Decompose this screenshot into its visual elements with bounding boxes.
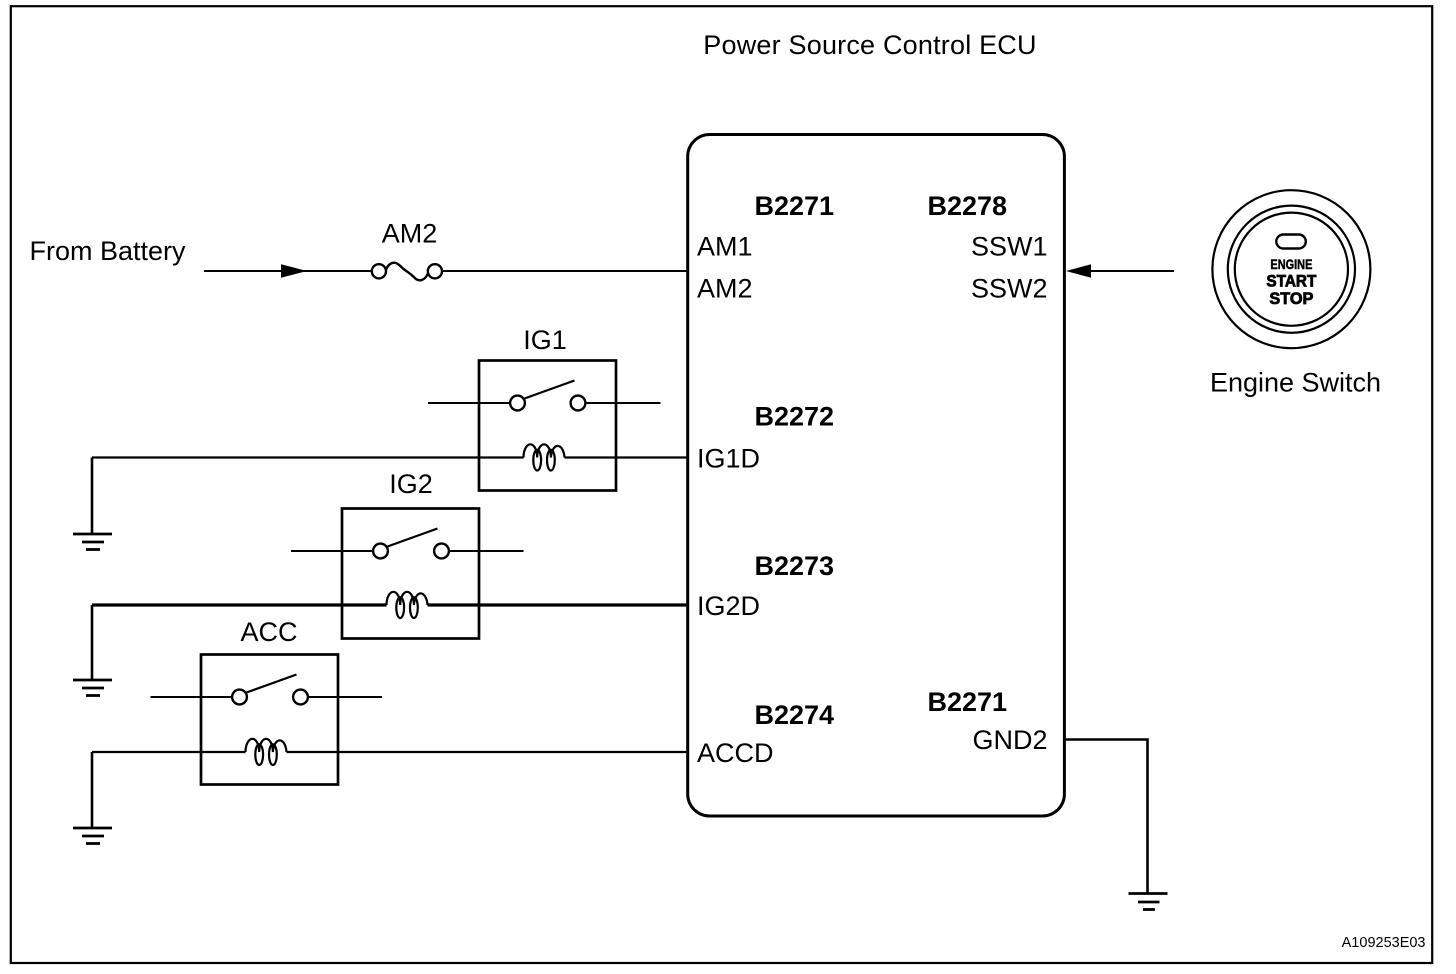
relay IG2 switch left stub: [291, 550, 373, 552]
wire engine switch to ECU: [1089, 270, 1174, 272]
svg-text:AM1: AM1: [697, 232, 753, 262]
arrow into SSW pins: [1066, 264, 1091, 277]
svg-text:START: START: [1266, 273, 1316, 291]
engine switch inner circle: [1235, 213, 1348, 326]
svg-text:Power Source Control ECU: Power Source Control ECU: [703, 30, 1036, 60]
wire IG1 coil to ECU pin IG1D: [565, 456, 688, 458]
relay IG1 coil: [524, 444, 565, 470]
relay IG2 switch contact left: [373, 544, 388, 559]
wire down to ground 3: [91, 752, 94, 828]
relay IG1 switch contact right: [571, 396, 586, 411]
ECU box U1: [688, 135, 1065, 817]
svg-text:GND2: GND2: [972, 725, 1047, 755]
ground 2: [73, 680, 112, 696]
svg-text:AM2: AM2: [382, 219, 438, 249]
svg-text:B2271: B2271: [755, 191, 835, 221]
relay ACC coil: [246, 739, 287, 765]
relay ACC switch left stub: [151, 696, 232, 698]
svg-text:ENGINE: ENGINE: [1270, 256, 1312, 272]
svg-text:B2271: B2271: [928, 687, 1008, 717]
ground 1: [73, 534, 112, 550]
svg-text:AM2: AM2: [697, 274, 753, 304]
relay ACC switch right stub: [309, 696, 383, 698]
arrow on battery wire: [281, 264, 307, 277]
relay IG1 box: [479, 361, 616, 491]
ground 3: [73, 828, 112, 844]
wire down to ground 2: [91, 605, 94, 680]
svg-text:B2278: B2278: [928, 191, 1008, 221]
svg-text:B2272: B2272: [755, 402, 835, 432]
relay ACC switch blade: [247, 675, 297, 693]
relay IG2 switch contact right: [434, 544, 449, 559]
relay IG2 coil: [387, 592, 428, 618]
relay IG1 switch blade: [525, 381, 575, 399]
wire ACC coil to ECU pin ACCD: [287, 751, 688, 753]
relay ACC switch contact left: [232, 690, 247, 705]
fuse AM2: [372, 263, 442, 281]
ground 4: [1129, 894, 1168, 910]
wire GND2 to ground 4: [1064, 740, 1147, 894]
wire ground to IG2 coil (bold): [92, 603, 387, 606]
relay ACC box: [201, 655, 338, 785]
relay IG2 switch blade: [388, 529, 438, 547]
wire fuse to ECU pin AM2: [442, 270, 688, 272]
relay IG1 switch left stub: [428, 402, 510, 404]
svg-text:IG1: IG1: [523, 325, 567, 355]
svg-text:A109253E03: A109253E03: [1342, 935, 1426, 951]
relay IG1 switch contact left: [510, 396, 525, 411]
wire ground to IG1 coil: [92, 456, 524, 458]
svg-text:IG1D: IG1D: [697, 444, 760, 474]
svg-text:SSW2: SSW2: [971, 274, 1048, 304]
svg-text:ACC: ACC: [240, 617, 297, 647]
relay IG2 box: [342, 509, 479, 639]
wire IG2 coil to ECU pin IG2D (bold): [428, 603, 688, 606]
relay ACC switch contact right: [293, 690, 308, 705]
svg-text:ACCD: ACCD: [697, 738, 774, 768]
relay IG1 switch right stub: [586, 402, 661, 404]
engine switch indicator lamp: [1276, 235, 1306, 249]
wire battery to fuse: [204, 270, 372, 272]
svg-text:B2274: B2274: [755, 700, 835, 730]
svg-text:STOP: STOP: [1269, 290, 1313, 308]
svg-text:Engine Switch: Engine Switch: [1210, 368, 1381, 398]
wire ground to ACC coil: [92, 751, 246, 753]
relay IG2 switch right stub: [450, 550, 524, 552]
engine switch outer ring: [1212, 190, 1370, 348]
svg-text:B2273: B2273: [755, 551, 835, 581]
wire down to ground 1: [91, 458, 94, 535]
svg-text:From Battery: From Battery: [30, 236, 187, 266]
engine switch middle ring: [1228, 206, 1355, 333]
svg-text:IG2D: IG2D: [697, 591, 760, 621]
svg-text:IG2: IG2: [389, 469, 433, 499]
svg-text:SSW1: SSW1: [971, 232, 1048, 262]
